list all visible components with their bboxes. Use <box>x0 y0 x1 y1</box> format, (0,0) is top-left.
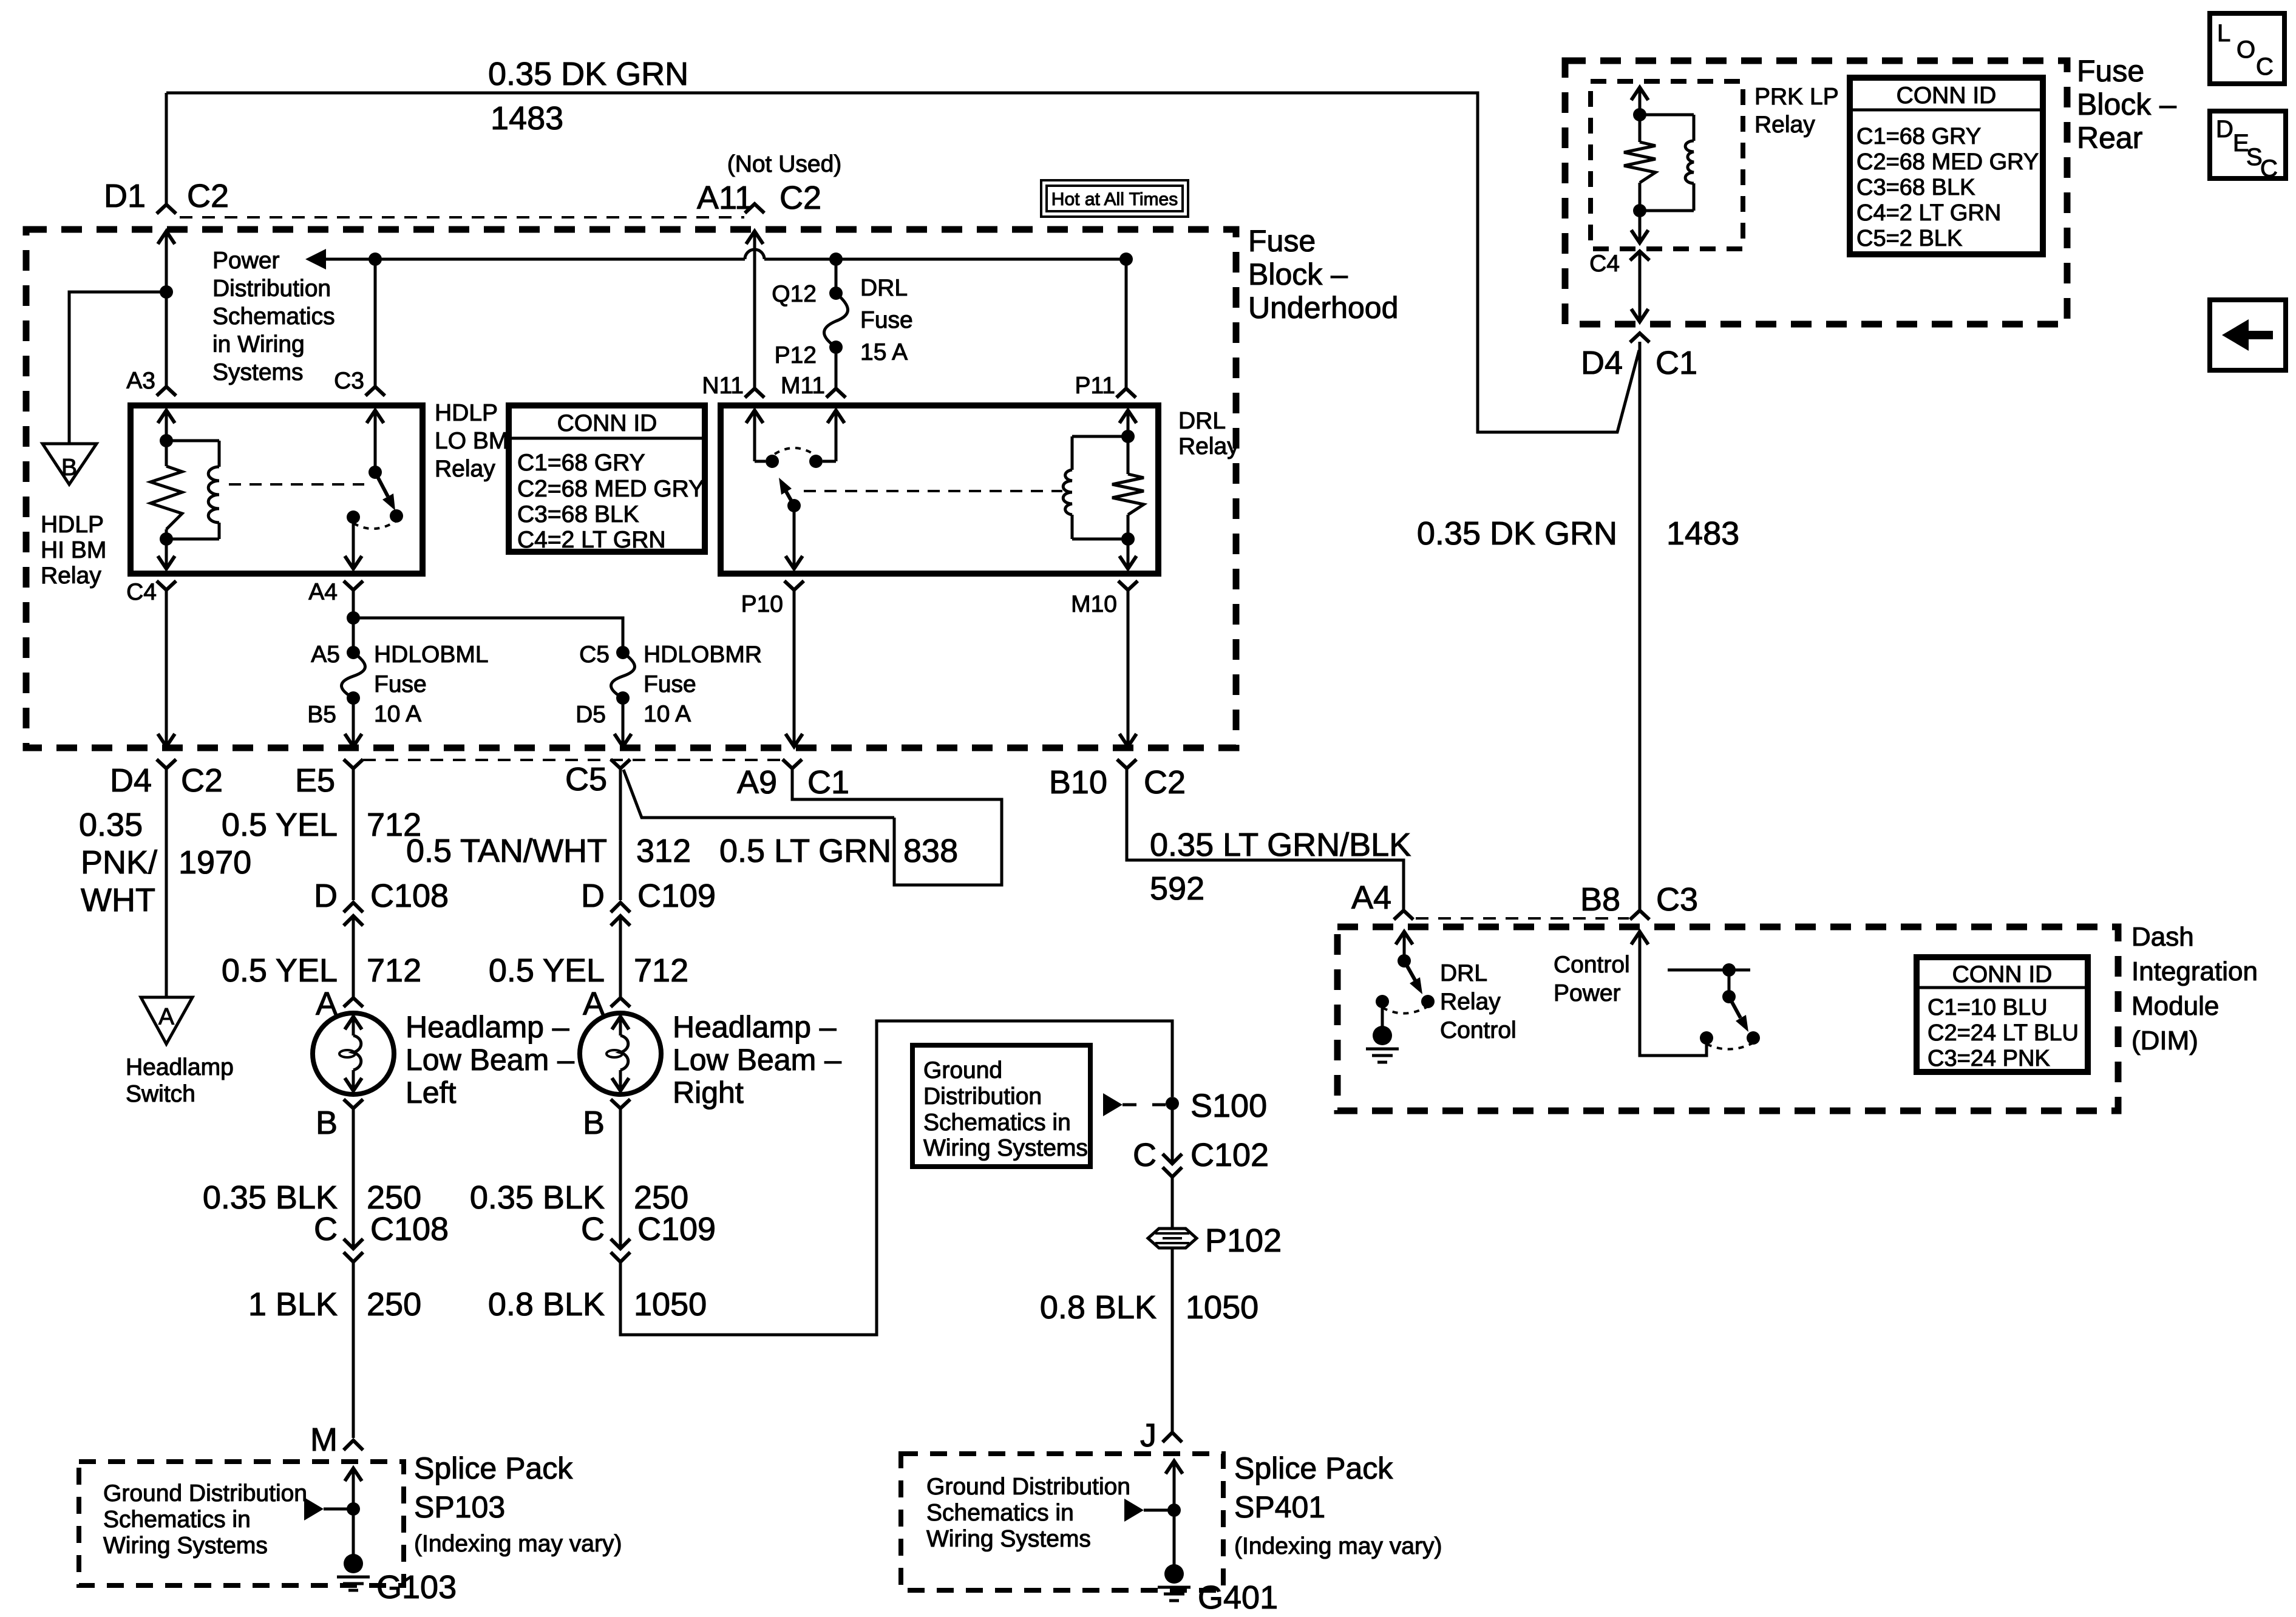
wire branch to HDLP HI BM relay triangle <box>69 292 166 444</box>
svg-text:712: 712 <box>367 952 421 989</box>
svg-text:G103: G103 <box>376 1569 457 1605</box>
svg-text:P102: P102 <box>1205 1222 1282 1259</box>
svg-text:Ground Distribution: Ground Distribution <box>103 1480 307 1507</box>
pin A left bulb <box>344 998 363 1007</box>
PRK LP Relay dashed box <box>1591 81 1743 249</box>
branch wire to HDLOBMR fuse <box>353 618 623 653</box>
connector A4 DIM <box>1394 910 1413 920</box>
wire C109 to bulb 0.5 YEL 712 <box>619 916 622 998</box>
DRL relay control input arrow <box>1396 932 1413 944</box>
bulb Headlamp Low Beam Left <box>313 1013 394 1094</box>
svg-text:A4: A4 <box>308 579 338 605</box>
svg-text:C102: C102 <box>1190 1137 1269 1173</box>
svg-text:Splice Pack: Splice Pack <box>1234 1451 1393 1485</box>
svg-text:Power: Power <box>212 248 280 274</box>
pin C4 connector below HDLP relay <box>157 581 176 590</box>
svg-text:Fuse: Fuse <box>644 671 696 697</box>
switch input M11 arrow <box>827 410 844 423</box>
CONN ID table DIM <box>1917 957 2088 1072</box>
svg-text:E5: E5 <box>295 762 335 799</box>
contact throw dashed arc DRL <box>775 448 813 454</box>
pin B left bulb <box>344 1099 363 1108</box>
switch contact to A4 <box>347 510 360 524</box>
svg-text:10 A: 10 A <box>644 701 691 727</box>
splice pointer SP401 <box>1124 1499 1144 1522</box>
svg-text:HDLP: HDLP <box>435 400 498 426</box>
contact arc DIM left switch <box>1382 1006 1428 1014</box>
connector D4/C1 rear <box>1630 333 1649 342</box>
svg-text:C3: C3 <box>1656 881 1698 918</box>
control power T node <box>1722 963 1736 977</box>
svg-text:M: M <box>310 1422 338 1458</box>
svg-text:C2: C2 <box>1144 764 1186 801</box>
ground inside DIM <box>1381 1002 1384 1029</box>
wire A3 drop <box>158 231 175 244</box>
fuse DRL 15 A <box>824 293 848 347</box>
svg-text:Control: Control <box>1440 1017 1517 1043</box>
ground G401 <box>1164 1564 1184 1584</box>
ground G103 <box>344 1554 363 1573</box>
DRL relay control pivot <box>1398 954 1411 968</box>
svg-text:Schematics in: Schematics in <box>926 1500 1074 1526</box>
svg-text:Headlamp: Headlamp <box>126 1054 234 1080</box>
control power pivot <box>1722 990 1736 1003</box>
switch contact right <box>390 509 403 523</box>
wire C108 to bulb 0.5 YEL 712 <box>352 916 355 998</box>
svg-text:M11: M11 <box>781 373 825 399</box>
pin J splice pack 401 <box>1163 1432 1182 1442</box>
pin M11 connector <box>826 388 846 398</box>
svg-text:C1: C1 <box>1656 345 1697 381</box>
svg-text:LO BM: LO BM <box>435 428 508 454</box>
svg-text:C4: C4 <box>126 579 157 605</box>
control power feed B8 arrow <box>1631 932 1648 944</box>
svg-text:0.35 DK GRN: 0.35 DK GRN <box>488 56 688 92</box>
connector B10/C2 <box>1117 759 1136 768</box>
svg-text:C5: C5 <box>565 761 607 798</box>
splice pointer S100 <box>1103 1093 1123 1116</box>
svg-text:B: B <box>583 1105 605 1141</box>
svg-text:Schematics in: Schematics in <box>923 1110 1071 1136</box>
wire stem to connector D1/C2 <box>165 93 168 205</box>
svg-text:Relay: Relay <box>435 456 495 482</box>
svg-text:HDLOBML: HDLOBML <box>374 642 489 668</box>
svg-text:B: B <box>316 1105 338 1141</box>
wire B5 to border <box>352 698 355 747</box>
svg-text:M10: M10 <box>1071 591 1117 617</box>
svg-text:Underhood: Underhood <box>1248 291 1398 325</box>
svg-text:Distribution: Distribution <box>212 276 331 302</box>
svg-text:592: 592 <box>1150 870 1204 907</box>
svg-text:(DIM): (DIM) <box>2131 1026 2198 1056</box>
svg-text:Relay: Relay <box>41 563 101 589</box>
PRK LP relay top arrow <box>1631 87 1648 100</box>
wire from A11 into block <box>746 231 763 244</box>
svg-text:D4: D4 <box>1581 345 1623 381</box>
PRK LP winding bottom node <box>1633 204 1646 217</box>
svg-text:250: 250 <box>367 1286 421 1323</box>
svg-text:CONN ID: CONN ID <box>557 410 657 436</box>
pin C3 connector <box>365 387 385 396</box>
svg-text:C1: C1 <box>807 764 849 801</box>
resistor of DRL relay <box>1127 436 1130 474</box>
wire to splice pack 1 BLK 250 <box>352 1262 355 1438</box>
svg-text:Dash: Dash <box>2131 922 2194 952</box>
svg-text:Integration: Integration <box>2131 957 2258 986</box>
svg-text:DRL: DRL <box>860 275 908 301</box>
svg-text:Block –: Block – <box>2077 87 2176 121</box>
actuation dashed link DRL <box>804 490 1062 492</box>
coil top node DRL relay <box>1127 410 1130 436</box>
svg-text:Fuse: Fuse <box>860 307 913 333</box>
svg-text:C4: C4 <box>1589 251 1620 277</box>
pin M10 exit arrow <box>1119 556 1136 569</box>
svg-text:Left: Left <box>406 1076 457 1110</box>
svg-text:1970: 1970 <box>178 844 251 881</box>
svg-text:250: 250 <box>634 1179 688 1216</box>
svg-text:C109: C109 <box>637 878 716 914</box>
svg-text:312: 312 <box>636 833 691 869</box>
DRL relay control contact left <box>1376 995 1389 1008</box>
wire pivot to P10 <box>793 506 796 569</box>
svg-text:Low Beam –: Low Beam – <box>406 1043 574 1077</box>
svg-text:B: B <box>61 455 77 481</box>
svg-text:B10: B10 <box>1049 764 1107 801</box>
pin P10 exit arrow <box>786 556 803 569</box>
junction A4 branch <box>347 611 360 625</box>
wire to P102 <box>1171 1177 1174 1227</box>
wire 0.35 PNK/WHT 1970 to headlamp switch <box>165 768 168 997</box>
svg-text:C108: C108 <box>370 878 449 914</box>
svg-text:CONN ID: CONN ID <box>1952 961 2053 988</box>
svg-text:SP103: SP103 <box>414 1490 505 1524</box>
wire 0.35 LT GRN/BLK 592 from B10 to DIM A4 <box>1127 768 1404 910</box>
wire S100 down <box>1171 1103 1174 1164</box>
svg-text:Fuse: Fuse <box>374 671 427 697</box>
connector E5 <box>344 759 363 768</box>
switch input N11 arrow <box>746 410 763 423</box>
svg-text:10 A: 10 A <box>374 701 421 727</box>
svg-text:Schematics: Schematics <box>212 303 335 330</box>
contact N11 dot <box>766 455 779 468</box>
wire DRL fuse drop <box>835 259 838 293</box>
svg-text:C4=2 LT GRN: C4=2 LT GRN <box>1856 200 2001 226</box>
coil of PRK LP relay <box>1640 114 1694 117</box>
svg-text:C2=68 MED GRY: C2=68 MED GRY <box>1856 149 2039 175</box>
svg-text:HDLOBMR: HDLOBMR <box>644 642 762 668</box>
svg-text:Hot at All Times: Hot at All Times <box>1051 189 1178 209</box>
svg-text:0.35 BLK: 0.35 BLK <box>470 1179 605 1216</box>
svg-text:C2: C2 <box>181 762 223 799</box>
winding top node <box>160 434 173 447</box>
svg-text:D: D <box>581 878 605 914</box>
pin A right bulb <box>611 998 630 1007</box>
connector C/C108 inline <box>344 1239 363 1249</box>
Fuse Block - Rear dashed box <box>1565 61 2067 324</box>
svg-text:C1=68 GRY: C1=68 GRY <box>517 450 645 476</box>
svg-text:Ground Distribution: Ground Distribution <box>926 1474 1130 1500</box>
pin N11 connector <box>745 388 764 398</box>
svg-text:Relay: Relay <box>1440 989 1501 1015</box>
PRK LP relay bottom arrow <box>1631 230 1648 243</box>
fuse HDLOBML 10 A <box>342 653 365 698</box>
svg-text:J: J <box>1140 1417 1156 1454</box>
svg-text:C2=68 MED GRY: C2=68 MED GRY <box>517 476 704 502</box>
wire 0.5 LT GRN 838 loop from C5 to A9 <box>623 770 894 818</box>
Splice Pack SP401 dashed box <box>901 1454 1223 1590</box>
svg-text:C3=24 PNK: C3=24 PNK <box>1927 1046 2050 1071</box>
svg-text:D: D <box>2216 116 2233 143</box>
dashed connector plane E5-A9 <box>363 759 782 761</box>
svg-text:Fuse: Fuse <box>2077 54 2144 88</box>
svg-text:C2: C2 <box>779 180 821 216</box>
svg-text:Relay: Relay <box>1178 433 1239 459</box>
coil bottom node DRL relay <box>1121 532 1135 546</box>
svg-text:D1: D1 <box>104 178 146 214</box>
junction to HDLP HI BM branch <box>160 285 173 299</box>
HDLP LO BM Relay box <box>131 405 423 574</box>
pin B right bulb <box>611 1099 630 1108</box>
wire P10 to border <box>793 590 796 747</box>
DRL Relay box <box>721 405 1158 574</box>
wire fuse to M11 <box>835 347 838 388</box>
svg-text:0.35: 0.35 <box>79 807 143 843</box>
svg-text:C5=2 BLK: C5=2 BLK <box>1856 226 1962 251</box>
bulb Headlamp Low Beam Right <box>580 1013 661 1094</box>
pin A4 exit arrow <box>345 556 362 569</box>
svg-text:A4: A4 <box>1351 880 1391 916</box>
svg-text:A11: A11 <box>697 180 753 216</box>
svg-text:0.35 LT GRN/BLK: 0.35 LT GRN/BLK <box>1150 827 1411 863</box>
svg-text:(Not Used): (Not Used) <box>727 151 842 177</box>
svg-text:P11: P11 <box>1075 373 1116 399</box>
control power T bar <box>1668 969 1750 972</box>
wire C4 to border <box>1639 251 1642 322</box>
control power arm <box>1729 997 1741 1018</box>
svg-text:Schematics in: Schematics in <box>103 1507 251 1533</box>
svg-text:Block –: Block – <box>1248 257 1348 291</box>
wire C5 to C109 0.5 TAN/WHT 312 <box>619 768 622 900</box>
wire E5 to C108 0.5 YEL 712 <box>352 768 355 900</box>
switch common C3 entry arrow <box>367 410 384 423</box>
pin A4 connector below HDLP relay <box>344 581 363 590</box>
svg-text:C2: C2 <box>187 178 229 214</box>
svg-text:C: C <box>2260 155 2278 182</box>
svg-text:HDLP: HDLP <box>41 512 104 538</box>
resistor of PRK LP relay <box>1639 115 1642 142</box>
svg-text:Systems: Systems <box>212 359 304 385</box>
DESC index box <box>2210 111 2286 178</box>
wire P11 drop <box>1125 259 1128 388</box>
winding bottom node <box>160 532 173 546</box>
svg-text:Right: Right <box>673 1076 744 1110</box>
wire into SP401 <box>1166 1461 1183 1474</box>
connector C/C109 inline <box>611 1239 630 1249</box>
dashed connector plane A4-B8 <box>1416 917 1629 920</box>
svg-text:C: C <box>581 1211 605 1247</box>
connector D/C108 inline <box>344 903 363 912</box>
switch pivot DRL relay <box>787 499 801 512</box>
svg-text:0.5 YEL: 0.5 YEL <box>222 807 338 843</box>
svg-text:Fuse: Fuse <box>1248 224 1316 258</box>
svg-text:0.5 TAN/WHT: 0.5 TAN/WHT <box>406 833 607 869</box>
svg-text:0.5 LT GRN: 0.5 LT GRN <box>719 833 891 869</box>
switch pivot <box>369 466 382 479</box>
actuation dashed link <box>229 483 364 486</box>
dashed connector plane D1-A11 <box>180 216 744 219</box>
svg-text:C108: C108 <box>370 1211 449 1247</box>
junction at C3 drop <box>369 253 382 266</box>
connector C5 <box>611 759 630 768</box>
svg-text:1050: 1050 <box>1186 1289 1258 1326</box>
wire 0.8 BLK 1050 to S100 <box>620 1021 1172 1335</box>
svg-text:S100: S100 <box>1190 1088 1267 1124</box>
svg-text:1483: 1483 <box>1666 515 1739 552</box>
PRK LP winding top node <box>1633 108 1646 121</box>
svg-text:Headlamp –: Headlamp – <box>406 1010 569 1044</box>
connector B8/C3 DIM <box>1630 910 1649 920</box>
splice pointer SP103 <box>304 1497 324 1520</box>
svg-text:N11: N11 <box>702 373 744 399</box>
svg-text:Control: Control <box>1554 952 1630 978</box>
svg-text:PRK LP: PRK LP <box>1754 84 1839 110</box>
svg-text:C3=68 BLK: C3=68 BLK <box>1856 175 1975 200</box>
svg-text:in Wiring: in Wiring <box>212 331 305 358</box>
DRL relay control contact right <box>1421 995 1435 1008</box>
svg-text:C: C <box>2256 53 2274 80</box>
svg-text:L: L <box>2217 20 2230 47</box>
DRL relay control arm <box>1404 961 1415 980</box>
svg-text:DRL: DRL <box>1440 960 1487 986</box>
svg-text:Wiring Systems: Wiring Systems <box>926 1526 1091 1552</box>
svg-text:0.8 BLK: 0.8 BLK <box>1040 1289 1156 1326</box>
svg-text:15 A: 15 A <box>860 339 908 365</box>
wire A4 down with branch <box>352 590 355 653</box>
wire M10 to border <box>1127 590 1130 747</box>
pin P11 connector <box>1116 388 1136 398</box>
switch arm <box>375 472 388 497</box>
svg-text:C5: C5 <box>579 642 610 668</box>
resistor of HDLP LO BM relay <box>165 441 168 466</box>
svg-text:Switch: Switch <box>126 1081 195 1107</box>
back arrow box <box>2210 300 2286 370</box>
CONN ID table rear <box>1850 78 2043 254</box>
switch arm DRL relay <box>786 492 794 506</box>
Hot at All Times flag <box>1041 180 1188 217</box>
wire D5 to border <box>622 698 625 747</box>
svg-text:O: O <box>2237 36 2255 63</box>
splice S100 <box>1166 1097 1179 1110</box>
connector A9/C1 <box>783 759 802 768</box>
svg-text:A5: A5 <box>311 642 340 668</box>
svg-text:0.35 BLK: 0.35 BLK <box>203 1179 338 1216</box>
svg-text:WHT: WHT <box>81 882 155 918</box>
svg-text:D: D <box>314 878 338 914</box>
splice junction SP103 <box>347 1502 360 1516</box>
svg-text:Module: Module <box>2131 991 2219 1021</box>
svg-text:Wiring Systems: Wiring Systems <box>923 1135 1088 1161</box>
svg-text:C: C <box>1133 1137 1156 1173</box>
svg-text:D4: D4 <box>110 762 152 799</box>
control power contact right <box>1747 1031 1760 1045</box>
svg-text:1 BLK: 1 BLK <box>248 1286 338 1323</box>
wire C4 to border <box>165 590 168 747</box>
svg-text:712: 712 <box>634 952 688 989</box>
svg-text:C3: C3 <box>334 368 364 394</box>
coil of HDLP LO BM relay <box>166 439 219 442</box>
reference triangle B <box>42 444 97 484</box>
svg-text:Power: Power <box>1554 980 1621 1006</box>
svg-text:A3: A3 <box>126 368 155 394</box>
svg-text:C109: C109 <box>637 1211 716 1247</box>
svg-text:C: C <box>314 1211 338 1247</box>
connector A11/C2 <box>745 204 764 213</box>
control power contact left <box>1700 1031 1713 1045</box>
svg-text:Q12: Q12 <box>772 281 817 307</box>
Splice Pack SP103 dashed box <box>79 1462 404 1585</box>
CONN ID table underhood <box>509 405 705 552</box>
Dash Integration Module dashed box <box>1337 927 2118 1111</box>
svg-text:0.35 DK GRN: 0.35 DK GRN <box>1417 515 1617 552</box>
svg-text:Splice Pack: Splice Pack <box>414 1451 573 1485</box>
contact throw dashed arc <box>353 521 396 529</box>
svg-text:D5: D5 <box>576 702 606 728</box>
svg-text:0.5 YEL: 0.5 YEL <box>489 952 605 989</box>
svg-text:Wiring Systems: Wiring Systems <box>103 1533 268 1559</box>
coil of DRL relay <box>1072 435 1128 438</box>
svg-text:C4=2 LT GRN: C4=2 LT GRN <box>517 527 666 553</box>
wire 0.35 DK GRN 1483 from rear fuse block to DIM B8 <box>1639 342 1642 910</box>
Fuse Block - Underhood dashed box <box>26 229 1236 748</box>
pass-through grommet P102 <box>1148 1229 1197 1248</box>
fuse HDLOBMR 10 A <box>611 653 635 698</box>
svg-text:0.5 YEL: 0.5 YEL <box>222 952 338 989</box>
svg-text:1050: 1050 <box>634 1286 707 1323</box>
power distribution feed wire <box>305 249 326 269</box>
pin C4 rear connector <box>1630 251 1649 260</box>
svg-text:838: 838 <box>903 833 958 869</box>
reference triangle A headlamp switch <box>141 997 192 1044</box>
relay pin A3 entry arrow <box>158 410 175 423</box>
wire C3 drop <box>374 259 377 387</box>
svg-text:CONN ID: CONN ID <box>1897 83 1997 109</box>
pin M splice pack <box>344 1440 363 1450</box>
svg-text:G401: G401 <box>1198 1579 1278 1616</box>
svg-text:B5: B5 <box>307 702 336 728</box>
wire B to C108 0.35 BLK 250 <box>352 1108 355 1249</box>
connector C/C102 inline <box>1163 1154 1182 1164</box>
svg-text:P10: P10 <box>741 591 783 617</box>
pin A3 connector <box>157 387 176 396</box>
svg-text:Low Beam –: Low Beam – <box>673 1043 841 1077</box>
svg-text:(Indexing may vary): (Indexing may vary) <box>414 1531 622 1557</box>
svg-text:Headlamp –: Headlamp – <box>673 1010 837 1044</box>
junction at DRL fuse drop <box>829 253 843 266</box>
svg-text:HI BM: HI BM <box>41 537 106 563</box>
connector D4/C2 <box>157 759 176 768</box>
svg-text:B8: B8 <box>1580 881 1620 918</box>
svg-text:DRL: DRL <box>1178 408 1226 434</box>
svg-text:Relay: Relay <box>1754 112 1815 138</box>
svg-text:PNK/: PNK/ <box>81 844 157 881</box>
junction at P11 drop <box>1119 253 1133 266</box>
svg-text:A9: A9 <box>737 764 777 801</box>
svg-text:(Indexing may vary): (Indexing may vary) <box>1234 1533 1442 1559</box>
contact M11 dot <box>809 455 823 468</box>
svg-text:0.8 BLK: 0.8 BLK <box>488 1286 605 1323</box>
svg-text:C1=68 GRY: C1=68 GRY <box>1856 124 1981 149</box>
svg-text:SP401: SP401 <box>1234 1490 1325 1524</box>
